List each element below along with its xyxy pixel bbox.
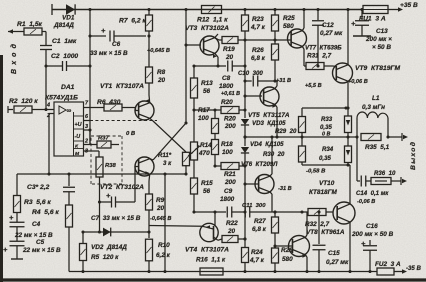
svg-text:С4: С4: [32, 221, 41, 228]
svg-text:+: +: [106, 191, 111, 200]
resistor R8: [146, 36, 153, 95]
svg-text:2: 2: [84, 139, 88, 145]
svg-text:R21: R21: [224, 171, 236, 178]
resistor R33: [299, 108, 306, 137]
svg-text:-35 В: -35 В: [406, 265, 422, 272]
label R17 100: [198, 107, 210, 122]
wire supply column: [88, 8, 91, 144]
svg-text:0,27 мк: 0,27 мк: [320, 30, 343, 37]
resistor R36: [371, 177, 407, 185]
label R26 6,8k: [251, 47, 266, 62]
label VT6b: [241, 161, 278, 168]
wire to output: [388, 133, 408, 141]
svg-text:+: +: [3, 245, 8, 254]
label R34 0,35: [319, 146, 334, 162]
wire bias row: [245, 38, 291, 41]
svg-text:6,8 к: 6,8 к: [252, 226, 267, 233]
svg-text:С8: С8: [222, 75, 231, 82]
terminal +35V: [398, 2, 418, 12]
wire VT3 base column: [184, 8, 187, 45]
label VT6: [0, 0, 1, 1]
op-amp cell FC: [75, 144, 79, 150]
capacitor C16: [361, 239, 377, 272]
capacitor C8: [228, 61, 247, 72]
wire VT10 collector: [349, 222, 351, 272]
svg-text:R20: R20: [221, 99, 233, 106]
label VT10: [309, 180, 337, 196]
wire VT5 collector: [275, 81, 277, 89]
wire column mid: [243, 40, 246, 118]
resistor R9: [146, 181, 153, 232]
label R29 20: [275, 128, 297, 135]
svg-text:22 мк × 15 В: 22 мк × 15 В: [22, 247, 61, 254]
svg-text:R10: R10: [158, 242, 170, 249]
wire +35V top rail: [52, 4, 400, 15]
wire pin3 column: [89, 130, 91, 144]
resistor R24: [242, 239, 249, 272]
diode-box VD6: [345, 137, 352, 165]
wire R13 to R14: [193, 110, 195, 142]
wire VT6 emitter: [270, 135, 274, 176]
svg-text:R2 120 к: R2 120 к: [9, 98, 38, 105]
label VT1: [100, 83, 144, 90]
svg-text:20: 20: [156, 205, 165, 212]
wire VT3 collector to R19: [215, 38, 222, 40]
svg-text:580: 580: [283, 23, 294, 30]
svg-text:R22: R22: [226, 220, 238, 227]
wire input node down: [45, 32, 47, 46]
label R4 5,6k: [32, 209, 59, 216]
svg-text:1800: 1800: [219, 83, 234, 90]
capacitor C2: [63, 61, 92, 71]
svg-text:100: 100: [198, 115, 209, 122]
transistor VT5: [260, 87, 279, 106]
svg-text:VT6 КТ209Л: VT6 КТ209Л: [241, 161, 278, 168]
svg-text:56: 56: [203, 188, 211, 195]
label R24 4,7k: [249, 249, 265, 264]
label FU2 3A: [375, 261, 401, 268]
resistor R22: [222, 236, 247, 243]
label R32 2,7: [305, 221, 330, 228]
svg-text:R33: R33: [321, 116, 333, 123]
resistor R17: [212, 108, 219, 139]
label R13 56: [201, 80, 213, 95]
svg-text:VD3 КД105: VD3 КД105: [252, 120, 286, 127]
label VT5: [248, 112, 290, 119]
capacitor C13: [351, 8, 371, 36]
svg-text:R24: R24: [251, 249, 263, 256]
wire correction dashed: [90, 120, 157, 122]
resistor R11*: [183, 152, 190, 174]
resistor R21: [213, 163, 246, 170]
svg-text:200 мк ×: 200 мк ×: [365, 36, 392, 43]
svg-text:4: 4: [46, 103, 50, 109]
label R23 4,7k: [250, 16, 266, 31]
svg-text:33 мк × 15 В: 33 мк × 15 В: [90, 50, 128, 57]
svg-text:R31 2,7: R31 2,7: [307, 53, 332, 60]
svg-text:VT5 КТ3117А: VT5 КТ3117А: [248, 112, 290, 119]
svg-text:С2 1000: С2 1000: [51, 53, 78, 60]
svg-text:4,7 к: 4,7 к: [250, 24, 266, 31]
svg-text:R25: R25: [283, 15, 295, 22]
capacitor C10: [245, 76, 277, 87]
label C6: [90, 41, 128, 57]
svg-text:С9: С9: [224, 188, 233, 195]
svg-text:-U: -U: [75, 134, 81, 140]
svg-text:470: 470: [198, 150, 210, 157]
pin 3: [84, 124, 92, 132]
svg-text:R13: R13: [201, 80, 213, 87]
resistor R31: [306, 63, 334, 70]
svg-text:580: 580: [282, 256, 293, 263]
resistor R32: [308, 209, 333, 216]
resistor R1: [15, 28, 46, 35]
resistor R7: [146, 8, 153, 38]
svg-text:20: 20: [227, 228, 236, 235]
label +0,06V: [348, 79, 368, 85]
label VT3: [185, 25, 229, 32]
wire VT3 base: [184, 43, 201, 46]
svg-text:R6 430: R6 430: [97, 99, 121, 106]
resistor R23: [242, 8, 249, 40]
label R10 6,2k: [156, 242, 171, 259]
svg-text:R29 20: R29 20: [275, 128, 297, 135]
svg-text:-0,58 В: -0,58 В: [306, 169, 326, 175]
transistor VT9: [333, 63, 353, 83]
wire R13R14 column top: [186, 44, 189, 46]
wire VT9 collector: [346, 8, 349, 65]
svg-text:+0,645 В: +0,645 В: [147, 48, 170, 54]
svg-text:VT2 КТ3102А: VT2 КТ3102А: [100, 184, 144, 191]
label VT8: [306, 229, 345, 236]
capacitor C15: [313, 210, 326, 271]
svg-text:С6: С6: [112, 41, 121, 48]
svg-text:+5,5 В: +5,5 В: [305, 83, 322, 89]
svg-text:R32 2,7: R32 2,7: [305, 221, 330, 228]
label C4: [14, 221, 53, 239]
resistor R34: [299, 137, 306, 165]
svg-text:L1: L1: [372, 95, 380, 102]
pin 8: [84, 149, 100, 158]
svg-text:R27: R27: [254, 218, 266, 225]
svg-text:С15: С15: [328, 250, 340, 257]
resistor R13: [191, 64, 198, 111]
svg-text:С5: С5: [36, 239, 45, 246]
inductor L1: [357, 112, 390, 139]
capacitor C14: [357, 176, 371, 187]
label Vhod: [10, 43, 18, 74]
label C7: [91, 215, 141, 222]
wire VT3 emitter: [213, 53, 220, 67]
wire VT7 collector: [302, 46, 306, 66]
label R7 6,2k: [119, 18, 146, 25]
label VT4: [185, 247, 229, 254]
label R37: [98, 136, 110, 142]
capacitor C11: [245, 207, 302, 218]
wire VT1 collector to cross: [150, 118, 153, 121]
svg-text:+31 В: +31 В: [276, 78, 291, 84]
label DA1: [61, 84, 75, 91]
label VD3 KD105: [252, 120, 286, 127]
svg-text:20: 20: [157, 77, 166, 84]
wire column low: [243, 166, 246, 241]
svg-text:FU2 3 А: FU2 3 А: [375, 261, 401, 268]
op-amp DA1 body: [54, 102, 84, 156]
resistor R16: [200, 268, 223, 275]
wire input to DA1 pin: [45, 66, 47, 109]
svg-text:R14: R14: [200, 142, 212, 149]
svg-text:VT3 КТ3102А: VT3 КТ3102А: [185, 25, 229, 32]
label R25 580: [283, 15, 295, 30]
svg-text:R36 10: R36 10: [374, 170, 396, 177]
resistor R27: [272, 210, 279, 246]
transistor VT3: [200, 36, 219, 55]
wire R20 row: [194, 109, 219, 111]
svg-text:+: +: [361, 239, 366, 248]
svg-text:200: 200: [224, 123, 236, 130]
svg-text:+U: +U: [75, 122, 82, 128]
svg-text:+: +: [351, 19, 356, 28]
capacitor C9: [227, 207, 243, 218]
svg-text:VT9 КТ819ГМ: VT9 КТ819ГМ: [355, 65, 401, 72]
svg-text:0,35: 0,35: [319, 155, 331, 162]
label R8 20: [157, 69, 166, 84]
diode VD4: [241, 147, 249, 166]
svg-text:С10 300: С10 300: [238, 70, 263, 77]
label C1 1mk: [52, 38, 77, 45]
label R16 1,1k: [196, 257, 226, 264]
pin 6: [84, 114, 91, 121]
label C16: [351, 223, 394, 238]
pin 4: [46, 103, 54, 110]
scan frame bottom edge: [0, 278, 426, 281]
potentiometer R14: [188, 98, 200, 178]
label +0,645V: [147, 48, 170, 54]
label +31V: [276, 78, 291, 84]
wire VT4 collector to R22: [218, 239, 222, 240]
svg-text:4,7 к: 4,7 к: [249, 257, 265, 264]
resistor R38: [96, 157, 103, 202]
svg-text:R9: R9: [156, 197, 165, 204]
label C10 300: [238, 70, 263, 77]
svg-text:С7 33 мк × 15 В: С7 33 мк × 15 В: [91, 215, 141, 222]
svg-text:VT10: VT10: [319, 180, 335, 187]
svg-text:С16: С16: [366, 223, 378, 230]
svg-text:200 мк × 50 В: 200 мк × 50 В: [351, 231, 394, 238]
resistor R3: [14, 174, 21, 222]
wire C8 row: [194, 65, 226, 67]
svg-text:R26: R26: [252, 47, 264, 54]
svg-text:R34: R34: [322, 146, 334, 153]
svg-text:6,8 к: 6,8 к: [251, 55, 266, 62]
label R33 0,35: [320, 116, 333, 131]
wire feedback node: [17, 172, 188, 175]
label R36 10: [374, 170, 396, 177]
terminal input arrow: [8, 29, 15, 34]
svg-text:VD4 КД105: VD4 КД105: [250, 141, 284, 148]
wire drive row: [300, 210, 308, 213]
diode-box VD5: [345, 106, 352, 137]
svg-text:FU1 3 А: FU1 3 А: [359, 16, 386, 23]
resistor R4: [66, 205, 73, 272]
svg-text:С12: С12: [322, 22, 334, 29]
resistor R10: [146, 230, 153, 271]
svg-text:VD1: VD1: [62, 15, 75, 22]
resistor R18: [212, 140, 219, 167]
label R20 200: [221, 99, 233, 106]
label FU1 3A: [359, 16, 386, 23]
cross-coupling wires: [153, 45, 188, 160]
wire inverting input down: [47, 114, 50, 176]
transistor VT8: [289, 236, 310, 257]
transistor VT4: [200, 223, 218, 241]
label R5 120k: [91, 254, 119, 261]
wire VT2 base: [135, 167, 139, 203]
svg-text:DA1: DA1: [61, 84, 75, 91]
svg-text:0,27 мк: 0,27 мк: [326, 259, 349, 266]
svg-text:R19: R19: [223, 46, 235, 53]
svg-text:R38: R38: [105, 163, 117, 169]
wire VT5 base: [245, 95, 262, 97]
wire VT1 base: [136, 108, 139, 111]
svg-text:+35 В: +35 В: [400, 2, 418, 9]
svg-text:R37: R37: [98, 136, 110, 142]
wire VT4 emitter: [149, 225, 210, 229]
svg-text:R28: R28: [281, 247, 293, 254]
transistor VT10: [333, 202, 355, 224]
wire output rail: [243, 135, 358, 138]
fuse FU2: [377, 268, 407, 275]
label C3* 2,2: [27, 184, 50, 191]
resistor R6: [104, 104, 136, 111]
label C14 0,1mk: [356, 190, 389, 197]
label R30 20: [263, 151, 285, 158]
label R18 100: [221, 141, 233, 156]
label L1: [362, 95, 385, 111]
label -0,58V: [306, 169, 326, 175]
svg-text:× 50 В: × 50 В: [372, 44, 391, 51]
svg-text:R18: R18: [221, 141, 233, 148]
resistor R28: [272, 246, 279, 272]
svg-text:0,3 мГн: 0,3 мГн: [362, 104, 385, 111]
label R21 200: [224, 171, 236, 186]
capacitor C4: [9, 213, 25, 241]
svg-text:R7 6,2 к: R7 6,2 к: [119, 18, 146, 25]
resistor R35: [361, 134, 381, 141]
svg-text:С1 1мк: С1 1мк: [52, 38, 77, 45]
svg-text:-0,645 В: -0,645 В: [150, 216, 171, 222]
diode VD3: [241, 119, 249, 146]
op-amp cell NC: [75, 151, 80, 157]
svg-text:-0,06 В: -0,06 В: [357, 199, 375, 205]
label -31V: [278, 186, 292, 192]
wire C2 branch: [44, 64, 62, 67]
label 0V out: [322, 132, 330, 138]
svg-text:R1 1,5к: R1 1,5к: [17, 21, 43, 28]
svg-text:0 В: 0 В: [126, 131, 136, 137]
label C2 1000: [51, 53, 78, 60]
svg-text:20: 20: [225, 54, 234, 61]
wire ground column: [163, 172, 166, 271]
svg-text:К574УД1Б: К574УД1Б: [45, 95, 78, 102]
capacitor C12: [312, 8, 324, 68]
terminal -35V: [406, 265, 422, 272]
svg-text:С14 0,1 мк: С14 0,1 мк: [356, 190, 389, 197]
svg-text:R16 1,1 к: R16 1,1 к: [196, 257, 226, 264]
wire VT6 base: [243, 182, 258, 185]
wire VT9 emitter: [347, 81, 349, 108]
svg-text:R4 5,6 к: R4 5,6 к: [32, 209, 59, 216]
svg-text:С13: С13: [376, 28, 388, 35]
label R6 430: [97, 99, 121, 106]
label R3 5,6k: [24, 199, 51, 206]
svg-text:R30 20: R30 20: [263, 151, 285, 158]
resistor R37: [97, 141, 119, 148]
svg-text:VT4 КТ3107А: VT4 КТ3107А: [185, 247, 229, 254]
pin 2 lower: [84, 139, 98, 145]
label VT2: [100, 184, 144, 191]
svg-text:R5 120 к: R5 120 к: [91, 254, 119, 261]
wire zobel left: [356, 137, 358, 181]
resistor R26: [272, 40, 279, 81]
svg-text:R20: R20: [224, 116, 236, 123]
label -0,645V: [150, 216, 171, 222]
svg-text:С3* 2,2: С3* 2,2: [27, 184, 50, 191]
label K574UD1B: [45, 95, 78, 102]
svg-text:Д814Д: Д814Д: [53, 22, 74, 29]
label R19 20: [223, 46, 235, 61]
label C11 300: [242, 203, 266, 209]
svg-text:VT7 КТ639Б: VT7 КТ639Б: [305, 45, 342, 52]
wire VD2 row: [81, 200, 149, 233]
op-amp cell +U: [75, 122, 82, 128]
capacitor C7: [100, 191, 136, 208]
wire emitter rail top: [302, 106, 348, 109]
label Vyhod: [409, 142, 417, 170]
wire VT5 emitter: [272, 104, 278, 138]
wire VT6 collector: [270, 192, 272, 212]
label R15 56: [201, 180, 213, 195]
label R14 470: [198, 142, 212, 157]
pin 2 left: [46, 113, 54, 119]
transistor VT2: [135, 157, 154, 181]
capacitor C5: [3, 241, 25, 259]
label C12 0,27mk: [320, 22, 343, 37]
svg-text:-31 В: -31 В: [278, 186, 292, 192]
svg-text:VD2 Д814Д: VD2 Д814Д: [91, 244, 127, 251]
svg-text:R23: R23: [252, 16, 264, 23]
svg-text:0,35: 0,35: [320, 124, 332, 131]
wire VT7 emitter: [302, 8, 305, 31]
label R12 1,1k: [197, 17, 228, 24]
label R38: [105, 163, 117, 169]
fuse FU1: [363, 6, 388, 14]
svg-text:+: +: [101, 26, 106, 35]
label R27 6,8k: [252, 218, 267, 233]
pin 7: [84, 101, 105, 108]
label R20 200b: [224, 116, 236, 131]
label R22 20: [226, 220, 238, 235]
label C8 1800: [219, 75, 240, 97]
capacitor C3*: [63, 172, 75, 205]
capacitor C6: [90, 26, 146, 42]
label R28 580: [281, 247, 293, 263]
resistor R19: [222, 37, 247, 44]
label VD2: [91, 244, 127, 251]
label VD4 KD105: [250, 141, 284, 148]
label C9 1800: [220, 188, 235, 203]
wire VT3 collector: [215, 34, 222, 40]
